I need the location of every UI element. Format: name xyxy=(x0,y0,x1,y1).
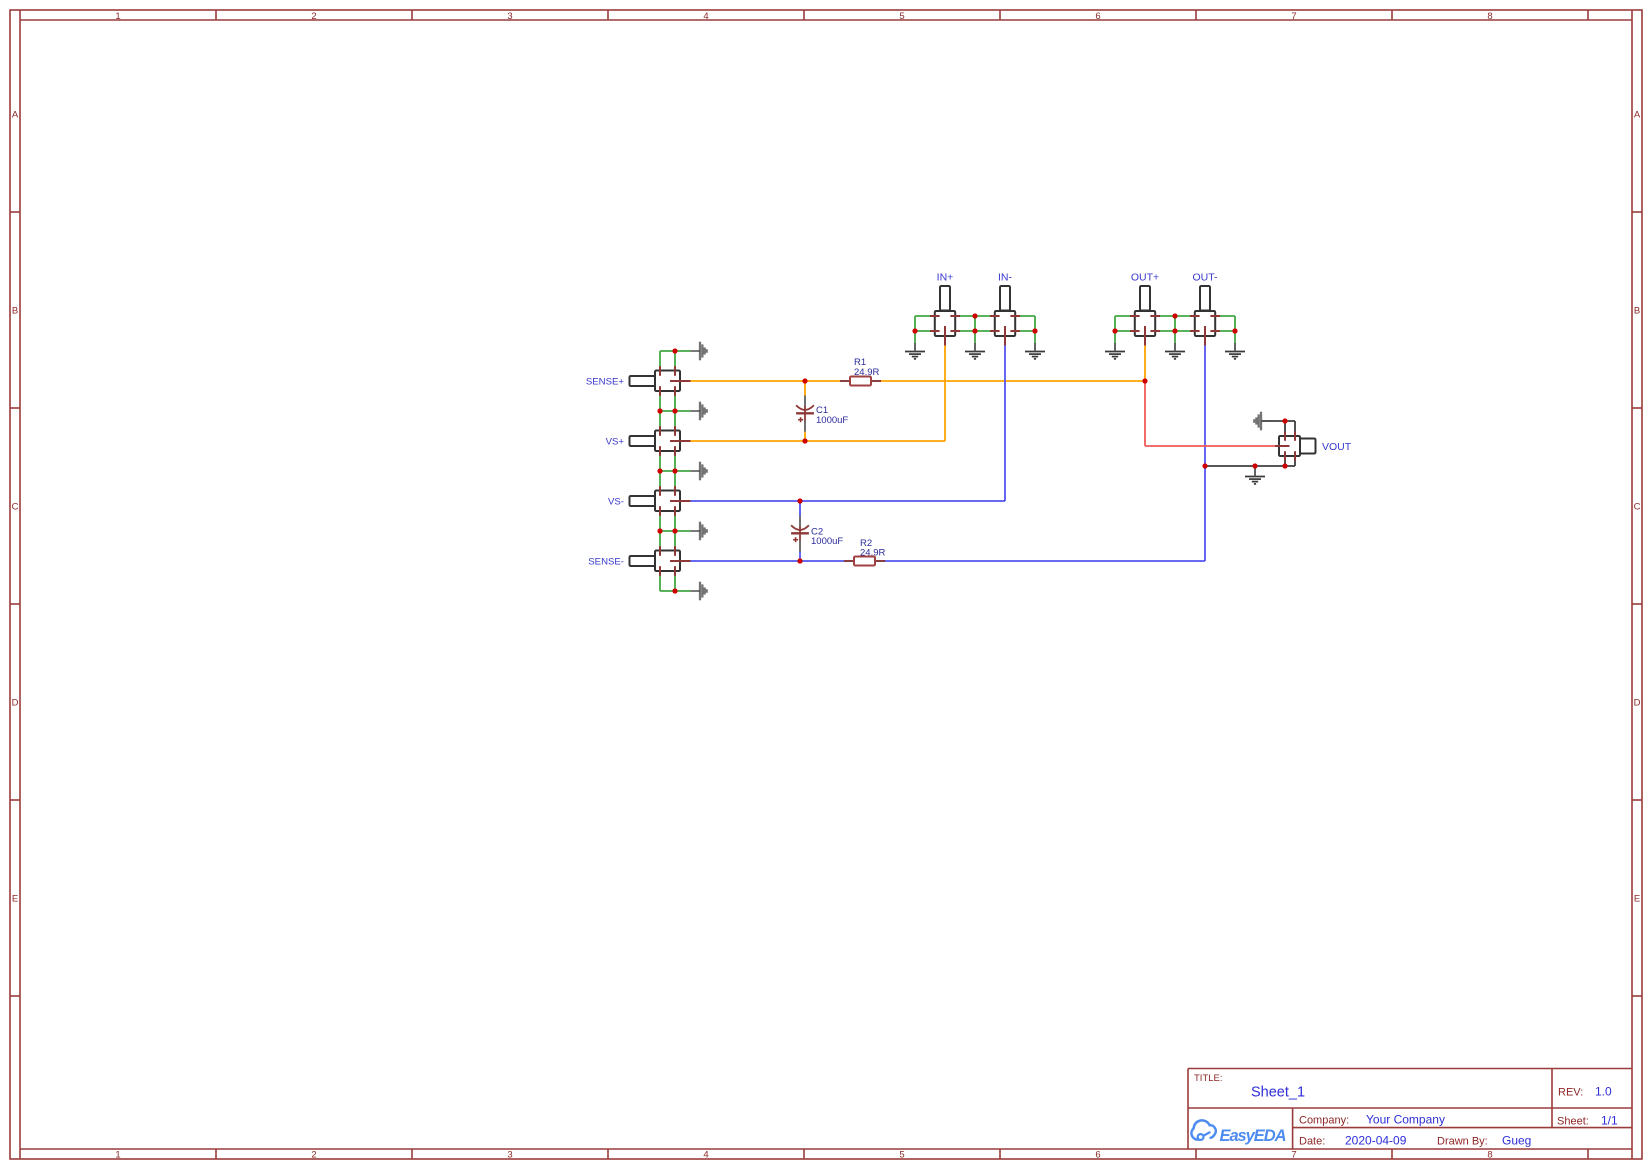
connector IN+ xyxy=(930,286,960,346)
svg-text:7: 7 xyxy=(1291,1150,1296,1161)
ground arrow row 1 xyxy=(691,342,707,361)
svg-text:D: D xyxy=(1634,698,1641,709)
svg-text:8: 8 xyxy=(1487,1150,1492,1161)
svg-text:1000uF: 1000uF xyxy=(816,415,848,426)
svg-text:D: D xyxy=(12,698,19,709)
connector IN- xyxy=(990,286,1020,346)
connector VOUT xyxy=(1275,432,1316,461)
wire blue SENSE- to R2 xyxy=(691,560,845,562)
wire orange SENSE+ to R1 xyxy=(691,380,841,382)
node SENSE+ label xyxy=(586,377,625,388)
svg-text:8: 8 xyxy=(1487,11,1492,22)
wire dark VOUT shield top xyxy=(1261,421,1295,432)
label R2 value xyxy=(860,538,885,559)
ground arrow row 4 xyxy=(691,522,707,541)
wire red node OUT+ to VOUT xyxy=(1145,381,1275,446)
wire green IN shield bus lower xyxy=(915,331,1035,343)
ground OUT shield right xyxy=(1225,343,1245,359)
ground VOUT shield xyxy=(1245,466,1265,484)
capacitor C2 xyxy=(791,516,809,552)
svg-text:IN-: IN- xyxy=(998,272,1013,284)
ground arrow row 5 xyxy=(691,582,707,601)
wire blue VS- to IN- xyxy=(691,345,1006,502)
svg-text:A: A xyxy=(1634,110,1641,121)
wire green OUT shield bus upper xyxy=(1115,316,1235,331)
svg-text:6: 6 xyxy=(1095,11,1100,22)
svg-text:2020-04-09: 2020-04-09 xyxy=(1345,1134,1407,1148)
svg-text:6: 6 xyxy=(1095,1150,1100,1161)
easyeda logo xyxy=(1191,1120,1286,1145)
svg-text:2: 2 xyxy=(311,1150,316,1161)
svg-text:5: 5 xyxy=(899,1150,904,1161)
label C2 value xyxy=(811,527,843,548)
svg-text:B: B xyxy=(1634,306,1640,317)
wire blue R2 to OUT- xyxy=(884,345,1205,562)
svg-text:Your Company: Your Company xyxy=(1366,1113,1445,1127)
svg-text:5: 5 xyxy=(899,11,904,22)
ground IN shield right xyxy=(1025,343,1045,359)
ground IN shield mid xyxy=(965,343,985,359)
svg-text:4: 4 xyxy=(703,1150,708,1161)
svg-text:IN+: IN+ xyxy=(937,272,954,284)
node IN+ label xyxy=(937,272,954,284)
node VS+ label xyxy=(606,437,625,448)
svg-text:C: C xyxy=(1634,502,1641,513)
node OUT+ label xyxy=(1131,272,1159,284)
capacitor C1 xyxy=(796,396,814,432)
connector SENSE+ xyxy=(630,366,691,396)
svg-text:OUT+: OUT+ xyxy=(1131,272,1159,284)
svg-text:Sheet:: Sheet: xyxy=(1557,1116,1589,1128)
svg-text:REV:: REV: xyxy=(1558,1087,1583,1099)
wire green gnd stub row 2 xyxy=(660,410,691,412)
svg-text:2: 2 xyxy=(311,11,316,22)
wire orange VS+ to IN+ xyxy=(691,345,946,442)
wire green gnd stub row 3 xyxy=(660,470,691,472)
wire orange OUT+ pin drop xyxy=(1144,345,1146,382)
svg-text:7: 7 xyxy=(1291,11,1296,22)
ground arrow row 3 xyxy=(691,462,707,481)
node VOUT label xyxy=(1322,441,1352,453)
svg-text:EasyEDA: EasyEDA xyxy=(1220,1127,1287,1145)
svg-text:3: 3 xyxy=(507,1150,512,1161)
wire orange R1 to node OUT+ xyxy=(880,380,1145,382)
wire green gnd bus vertical A xyxy=(659,351,661,591)
connector OUT- xyxy=(1190,286,1220,346)
svg-text:E: E xyxy=(12,894,18,905)
label R1 value xyxy=(854,357,879,378)
wire green gnd stub row 5 xyxy=(660,590,691,592)
ground IN shield left xyxy=(905,343,925,359)
wire green IN shield bus upper xyxy=(915,316,1035,331)
wire green gnd bus vertical B xyxy=(674,351,676,591)
connector VS- xyxy=(630,486,691,516)
node IN- label xyxy=(998,272,1013,284)
svg-text:E: E xyxy=(1634,894,1640,905)
node SENSE- label xyxy=(588,557,624,568)
svg-text:VS-: VS- xyxy=(608,497,624,508)
svg-text:Drawn By:: Drawn By: xyxy=(1437,1136,1488,1148)
wire green OUT shield bus lower xyxy=(1115,331,1235,343)
svg-text:1.0: 1.0 xyxy=(1595,1085,1612,1099)
svg-text:B: B xyxy=(12,306,18,317)
svg-text:A: A xyxy=(12,110,19,121)
svg-text:4: 4 xyxy=(703,11,708,22)
ground arrow row 2 xyxy=(691,402,707,421)
ground arrow VOUT xyxy=(1254,412,1270,431)
svg-text:SENSE+: SENSE+ xyxy=(586,377,625,388)
svg-text:Company:: Company: xyxy=(1299,1115,1349,1127)
ground OUT shield mid xyxy=(1165,343,1185,359)
title block xyxy=(1188,1069,1632,1150)
svg-text:C: C xyxy=(12,502,19,513)
wire orange C1 stubs xyxy=(804,381,806,441)
connector OUT+ xyxy=(1130,286,1160,346)
label C1 value xyxy=(816,405,848,426)
wire dark VOUT shield bottom xyxy=(1205,460,1295,466)
connector VS+ xyxy=(630,426,691,456)
connector SENSE- xyxy=(630,546,691,576)
resistor R1 xyxy=(840,377,881,386)
svg-text:OUT-: OUT- xyxy=(1192,272,1218,284)
svg-text:1: 1 xyxy=(115,11,120,22)
wire green gnd stub row 1 xyxy=(660,350,691,352)
svg-text:TITLE:: TITLE: xyxy=(1194,1073,1223,1084)
svg-text:VOUT: VOUT xyxy=(1322,441,1352,453)
node OUT- label xyxy=(1192,272,1218,284)
ground OUT shield left xyxy=(1105,343,1125,359)
svg-text:1: 1 xyxy=(115,1150,120,1161)
svg-text:1000uF: 1000uF xyxy=(811,536,843,547)
svg-text:Sheet_1: Sheet_1 xyxy=(1251,1085,1305,1101)
svg-text:Gueg: Gueg xyxy=(1502,1134,1531,1148)
svg-text:Date:: Date: xyxy=(1299,1136,1325,1148)
wire blue C2 stubs xyxy=(799,501,801,561)
resistor R2 xyxy=(844,557,885,566)
svg-text:24.9R: 24.9R xyxy=(854,367,879,378)
wire green gnd stub row 4 xyxy=(660,530,691,532)
svg-text:3: 3 xyxy=(507,11,512,22)
node VS- label xyxy=(608,497,624,508)
svg-text:1/1: 1/1 xyxy=(1601,1114,1618,1128)
svg-text:SENSE-: SENSE- xyxy=(588,557,624,568)
svg-text:VS+: VS+ xyxy=(606,437,625,448)
svg-text:24.9R: 24.9R xyxy=(860,548,885,559)
junction dots xyxy=(657,313,1287,593)
